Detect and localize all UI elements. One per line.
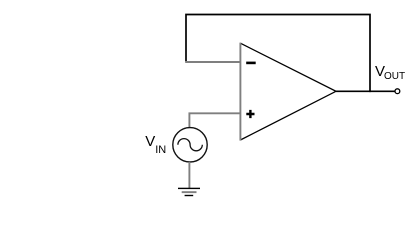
wire: output segment from op-amp apex to output terminal xyxy=(336,90,395,92)
op-amp non-inverting input (+) pin symbol xyxy=(246,110,254,118)
ground xyxy=(178,188,200,197)
svg-text:VIN: VIN xyxy=(145,133,166,156)
op-amp U1 xyxy=(240,43,336,141)
wire: source bottom lead to ground xyxy=(188,162,190,188)
op-amp inverting input (-) pin symbol xyxy=(246,62,256,65)
source VIN (AC sine source) xyxy=(173,128,207,162)
junction: feedback tap on output wire xyxy=(369,90,371,92)
terminal VOUT (open circle) xyxy=(395,89,400,94)
wire: inverting input segment xyxy=(185,61,240,63)
svg-text:VOUT: VOUT xyxy=(375,63,405,82)
wire: non-inverting input segment from source to op-amp xyxy=(189,113,240,128)
wire: feedback loop from output node up and over to inverting input xyxy=(186,15,370,92)
